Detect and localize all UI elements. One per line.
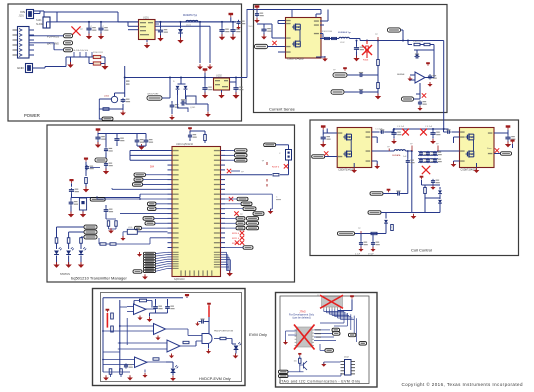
svg-text:R106: R106	[363, 60, 369, 62]
svg-text:Rsns: Rsns	[487, 148, 492, 150]
svg-text:BATTSNS: BATTSNS	[47, 41, 59, 45]
svg-text:POWER: POWER	[24, 113, 40, 118]
svg-text:MURATA Typ: MURATA Typ	[338, 31, 352, 34]
svg-text:R109 R110: R109 R110	[413, 41, 424, 43]
svg-text:Q101: Q101	[190, 107, 196, 109]
svg-text:R219 0: R219 0	[272, 167, 280, 169]
svg-text:MURATA: MURATA	[392, 154, 401, 157]
svg-text:R103 R104: R103 R104	[322, 31, 333, 33]
svg-text:SLIDE: SLIDE	[36, 23, 43, 26]
svg-text:10k 10k 10k 10k: 10k 10k 10k 10k	[72, 50, 89, 52]
svg-text:R221 0: R221 0	[232, 238, 240, 240]
svg-text:GND: GND	[17, 66, 25, 70]
svg-text:HVDCP-EVM Only: HVDCP-EVM Only	[199, 377, 231, 381]
svg-text:(can be deleted): (can be deleted)	[292, 317, 310, 320]
svg-text:J101: J101	[19, 15, 25, 18]
svg-text:10k: 10k	[294, 361, 297, 363]
svg-text:CSD87334Q3D: CSD87334Q3D	[287, 58, 304, 61]
svg-text:J102: J102	[344, 357, 350, 359]
svg-text:0.1uF: 0.1uF	[355, 254, 361, 256]
svg-text:U102: U102	[216, 75, 222, 78]
svg-text:CHG-PORT: CHG-PORT	[147, 94, 159, 96]
svg-text:U101: U101	[143, 17, 149, 20]
svg-text:STATUS: STATUS	[60, 272, 70, 276]
svg-text:SENSE: SENSE	[397, 74, 405, 76]
svg-text:PD-PROG: PD-PROG	[47, 34, 59, 38]
svg-text:C 4.7uF: C 4.7uF	[425, 126, 433, 128]
svg-text:S101: S101	[36, 19, 42, 22]
svg-text:C 4.7uF: C 4.7uF	[397, 126, 405, 128]
svg-text:U201 bq501210: U201 bq501210	[176, 143, 194, 146]
svg-text:R220 0: R220 0	[232, 233, 240, 235]
svg-text:Copyright © 2016, Texas Instru: Copyright © 2016, Texas Instruments Inco…	[402, 381, 523, 387]
svg-text:bq501210: bq501210	[174, 278, 185, 281]
svg-text:JTAG and I2C Communication - E: JTAG and I2C Communication - EVM Only	[279, 379, 360, 383]
svg-text:R110 R111: R110 R111	[93, 52, 104, 54]
svg-text:470pF: 470pF	[368, 254, 374, 256]
svg-text:bq501210 Transmitter Manager: bq501210 Transmitter Manager	[71, 276, 127, 281]
svg-text:C 0.1uF: C 0.1uF	[375, 129, 383, 131]
svg-text:R222 0: R222 0	[232, 243, 240, 245]
svg-text:Q102: Q102	[104, 96, 110, 98]
svg-text:504: 504	[150, 166, 155, 169]
svg-text:MURATA Typ: MURATA Typ	[183, 14, 198, 17]
svg-text:EVM Only: EVM Only	[249, 332, 267, 337]
svg-text:HVDCP DETECTION: HVDCP DETECTION	[214, 331, 234, 333]
svg-text:Current Sense: Current Sense	[269, 107, 296, 112]
svg-text:VIN: VIN	[20, 10, 25, 14]
svg-text:Coil Control: Coil Control	[411, 248, 432, 253]
